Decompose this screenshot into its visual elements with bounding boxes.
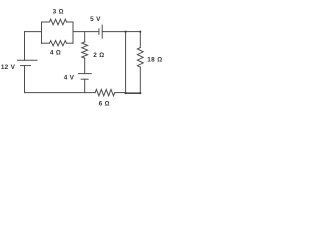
battery B2 4V long plate bbox=[78, 73, 91, 75]
wire top middle horizontal bbox=[73, 31, 99, 33]
resistor R3 2ohm bbox=[82, 42, 88, 58]
svg-text:4 V: 4 V bbox=[64, 75, 75, 82]
wire 18ohm top lead bbox=[139, 32, 141, 48]
svg-text:12 V: 12 V bbox=[1, 64, 16, 71]
node left junction of parallel block bbox=[41, 22, 43, 43]
wire right loop left vertical bbox=[125, 32, 127, 94]
svg-text:5 V: 5 V bbox=[90, 16, 101, 23]
wire right loop bottom bbox=[126, 92, 141, 94]
wire left vertical upper bbox=[24, 32, 26, 61]
wire top right horizontal bbox=[102, 31, 125, 33]
resistor R1 3ohm bbox=[50, 19, 67, 25]
battery B1 5V long plate bbox=[101, 25, 103, 38]
resistor R4 6ohm bbox=[95, 89, 115, 95]
wire bottom left horizontal bbox=[25, 92, 96, 94]
node junction dot top right loop right bbox=[139, 31, 141, 33]
battery B2 4V short plate bbox=[81, 78, 88, 80]
wire 18ohm bottom lead bbox=[139, 67, 141, 93]
svg-text:4 Ω: 4 Ω bbox=[50, 49, 61, 56]
wire right loop top bbox=[126, 31, 141, 33]
svg-text:2 Ω: 2 Ω bbox=[93, 52, 104, 59]
wire bottom branch lead-in bbox=[42, 42, 50, 44]
wire left vertical lower bbox=[24, 66, 26, 93]
svg-text:18 Ω: 18 Ω bbox=[147, 56, 162, 63]
wire bottom right horizontal bbox=[115, 92, 126, 94]
battery B3 12V short plate bbox=[20, 65, 30, 67]
node junction dot bottom right loop left bbox=[125, 92, 127, 94]
svg-text:3 Ω: 3 Ω bbox=[53, 8, 64, 15]
battery B1 5V short plate bbox=[98, 29, 100, 35]
wire top branch lead-out bbox=[67, 21, 74, 23]
wire top branch lead-in bbox=[42, 21, 50, 23]
wire middle branch bottom lead bbox=[84, 79, 86, 92]
wire middle branch mid lead bbox=[84, 58, 86, 73]
node junction dot bottom right loop right bbox=[139, 92, 141, 94]
battery B3 12V long plate bbox=[18, 59, 38, 61]
node junction dot top right loop left bbox=[125, 31, 127, 33]
resistor R2 4ohm bbox=[50, 41, 67, 46]
wire top-left horizontal bbox=[25, 31, 42, 33]
node right junction of parallel block bbox=[72, 22, 74, 43]
wire middle branch top lead bbox=[84, 32, 86, 42]
svg-text:6 Ω: 6 Ω bbox=[99, 101, 110, 108]
resistor R5 18ohm bbox=[137, 48, 143, 68]
wire bottom branch lead-out bbox=[67, 42, 74, 44]
